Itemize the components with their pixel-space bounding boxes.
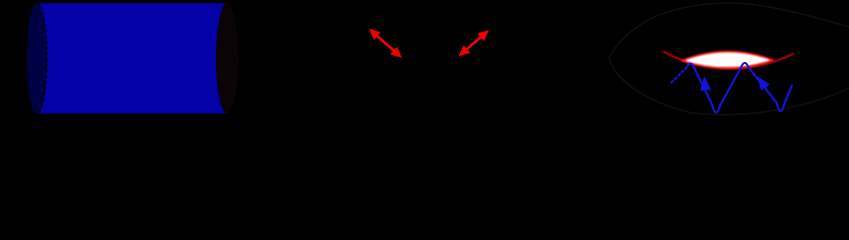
stress double arrow 1 shaft [376, 35, 396, 53]
laser rod body [37, 3, 227, 113]
heat wave (blue zigzag arrow shaft) [687, 63, 793, 113]
stress double arrow 2 head lower-left [459, 45, 471, 56]
stress double arrow 1 head upper-left [369, 29, 381, 40]
stress double arrow 1 head lower-right [390, 47, 402, 58]
thermal lens core [683, 52, 772, 68]
heat-wave arrowhead 2 [757, 76, 769, 90]
thermal lens glow [683, 52, 772, 68]
wavefront outline (large faint lens), bottom arc [609, 58, 849, 115]
left cap hidden-edge dashed arc [37, 3, 47, 113]
stress double arrow 2 shaft [466, 37, 482, 51]
thermal-lens surface curve (red whiskers) [663, 52, 794, 69]
wavefront outline (large faint lens), top arc [609, 3, 849, 58]
stress double arrow 2 head upper-right [477, 30, 489, 41]
laser rod right end cap [216, 3, 238, 114]
heat-wave arrowhead 1 [700, 76, 711, 91]
heat wave left dotted tail [672, 68, 687, 83]
laser rod left end cap [27, 3, 47, 113]
